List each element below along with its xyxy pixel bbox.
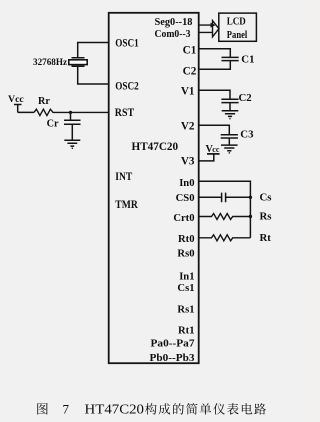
svg-text:Seg0--18: Seg0--18 [155, 17, 193, 28]
svg-text:INT: INT [115, 171, 132, 183]
svg-text:V1: V1 [181, 85, 195, 97]
svg-text:Pb0--Pb3: Pb0--Pb3 [150, 353, 195, 364]
svg-text:Com0--3: Com0--3 [155, 29, 191, 40]
svg-text:In0: In0 [179, 178, 194, 189]
svg-text:cc: cc [212, 145, 220, 154]
svg-text:Rt1: Rt1 [178, 325, 194, 336]
svg-text:Panel: Panel [227, 29, 248, 41]
svg-text:V2: V2 [181, 120, 195, 132]
svg-text:C1: C1 [241, 53, 254, 65]
svg-text:Crt0: Crt0 [173, 213, 194, 224]
svg-text:TMR: TMR [115, 199, 138, 211]
svg-text:LCD: LCD [227, 16, 246, 28]
svg-text:Pa0--Pa7: Pa0--Pa7 [151, 339, 196, 350]
svg-text:V3: V3 [181, 155, 195, 167]
svg-text:Cs: Cs [260, 191, 272, 203]
svg-text:Rt0: Rt0 [178, 234, 194, 245]
svg-text:C3: C3 [240, 128, 254, 140]
svg-text:7: 7 [63, 402, 70, 417]
svg-text:Rt: Rt [260, 232, 272, 244]
svg-text:Rs0: Rs0 [177, 248, 194, 259]
svg-text:C2: C2 [239, 92, 252, 104]
svg-text:HT47C20: HT47C20 [132, 141, 179, 153]
svg-text:OSC2: OSC2 [115, 80, 139, 92]
svg-text:Rr: Rr [38, 96, 50, 107]
svg-text:CS0: CS0 [176, 193, 195, 204]
svg-text:Cs1: Cs1 [177, 283, 194, 294]
svg-text:Rs1: Rs1 [177, 305, 194, 316]
svg-text:RST: RST [115, 107, 135, 119]
svg-text:Rs: Rs [260, 210, 272, 222]
svg-text:HT47C20: HT47C20 [85, 402, 145, 417]
svg-text:32768Hz: 32768Hz [33, 57, 68, 68]
svg-text:OSC1: OSC1 [115, 37, 139, 49]
svg-text:C2: C2 [183, 65, 197, 77]
svg-text:In1: In1 [179, 271, 194, 282]
svg-text:Cr: Cr [47, 118, 59, 129]
svg-text:Vcc: Vcc [8, 94, 24, 105]
svg-text:C1: C1 [183, 44, 197, 56]
